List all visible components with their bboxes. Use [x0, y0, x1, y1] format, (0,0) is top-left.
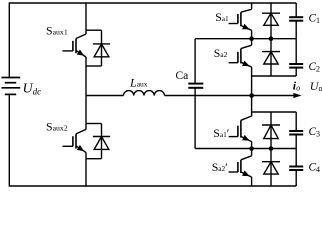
svg-text:io: io [293, 79, 300, 93]
transistor Sa1' (IGBT) [229, 116, 252, 142]
capacitor Ca plates [188, 84, 203, 88]
wire left leg middle [85, 57, 87, 129]
capacitor C4 branch [295, 149, 297, 167]
svg-text:Udc: Udc [23, 81, 42, 96]
diode of Saux1 module [86, 30, 110, 66]
diode of Saux2 module [86, 124, 110, 159]
wire lower cell top [252, 111, 297, 113]
node output junction [249, 93, 254, 98]
wire right leg segments [251, 2, 253, 9]
capacitor C3 branch [295, 112, 297, 131]
wire bottom rail [9, 185, 296, 187]
svg-text:C3: C3 [309, 126, 321, 139]
diode D4 [262, 149, 280, 187]
svg-text:C4: C4 [309, 161, 321, 174]
diode D1 [262, 2, 280, 38]
svg-text:Laux: Laux [129, 76, 148, 90]
transistor Sa2 (IGBT) [229, 45, 252, 67]
node J1' diode junction [269, 146, 274, 151]
node J1 leg junction [249, 36, 254, 41]
svg-text:Saux1: Saux1 [46, 23, 68, 37]
wire J1 (midpoint of upper right leg) [195, 38, 296, 40]
inductor Laux coil [124, 91, 165, 96]
svg-text:Sa1′: Sa1′ [213, 126, 229, 140]
svg-text:C1: C1 [309, 13, 321, 26]
battery Udc [2, 78, 21, 95]
transistor Saux1 (IGBT) [62, 34, 86, 57]
capacitor C1 branch [295, 3, 297, 17]
diode D2 [262, 39, 280, 76]
wire middle (output) left part [86, 95, 124, 97]
wire left vertical lower [8, 94, 10, 186]
wire upper cell bottom [252, 75, 297, 77]
svg-text:C2: C2 [309, 61, 321, 74]
wire J1' (midpoint of lower right leg) [195, 148, 296, 150]
diode D3 [262, 112, 280, 149]
capacitor Ca branch vertical upper [194, 39, 196, 84]
wire left leg lower [85, 152, 87, 186]
wire top rail [9, 2, 296, 4]
svg-text:Sa2′: Sa2′ [212, 160, 228, 174]
node J1' leg junction [249, 146, 254, 151]
transistor Saux2 (IGBT) [62, 129, 86, 152]
svg-text:Uo: Uo [310, 79, 322, 93]
svg-text:Ca: Ca [176, 70, 189, 82]
transistor Sa2' (IGBT) [229, 156, 252, 177]
svg-text:Sa1: Sa1 [215, 10, 229, 24]
svg-text:Sa2: Sa2 [214, 46, 228, 60]
wire left vertical upper [8, 2, 10, 77]
wire left leg upper [85, 2, 87, 34]
svg-text:Saux2: Saux2 [46, 120, 68, 134]
transistor Sa1 (IGBT) [229, 9, 252, 30]
node J1 diode junction [269, 36, 274, 41]
capacitor Ca branch vertical lower (crosses middle wire, no junction) [194, 88, 196, 149]
wire middle (output) right part with arrow io [165, 95, 295, 97]
capacitor C2 branch [295, 39, 297, 64]
